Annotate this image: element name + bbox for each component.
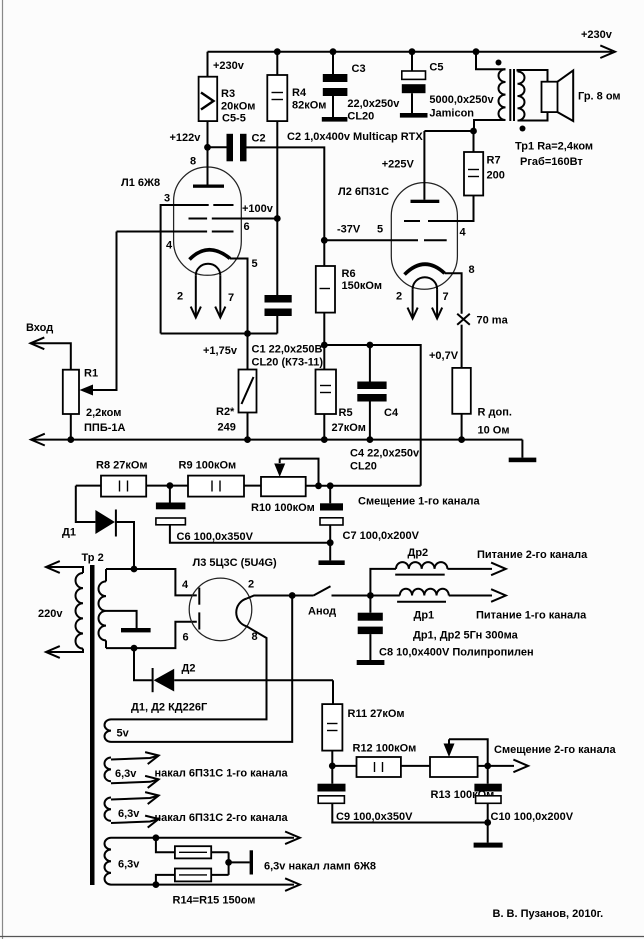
wire L3 pin2 anode out [247,596,292,599]
potentiometer R13 [430,757,478,777]
svg-text:6,3v: 6,3v [115,768,137,780]
diode D1 [76,486,96,522]
svg-text:R7: R7 [487,155,501,167]
svg-text:+230v: +230v [213,60,245,72]
svg-text:C10 100,0x200V: C10 100,0x200V [491,811,574,823]
svg-text:Анод: Анод [308,606,336,618]
transformer T2 core [90,565,95,885]
speaker Gr 8 ohm [542,82,558,112]
node junction C4 top [367,342,374,349]
node junction Dr2/C8 [367,592,374,599]
svg-text:В. В. Пузанов, 2010г.: В. В. Пузанов, 2010г. [493,908,604,920]
svg-text:Л3 5Ц3С (5U4G): Л3 5Ц3С (5U4G) [193,557,278,569]
transformer T2 6,3v winding 2 [104,798,111,821]
tube L2 cathode [405,264,445,274]
svg-text:20кОм: 20кОм [221,101,255,113]
wire R13 wiper [449,739,488,766]
svg-text:R11 27кОм: R11 27кОм [348,708,405,720]
svg-text:200: 200 [487,170,505,182]
svg-text:6,3v: 6,3v [118,859,140,871]
svg-text:R8 27кОм: R8 27кОм [96,460,148,472]
node junction C5 top [409,48,416,55]
wire bias rail to C4 [324,345,420,486]
svg-text:CL20: CL20 [350,461,377,473]
svg-text:CL20: CL20 [347,111,374,123]
node junction C7 top [327,482,334,489]
tube L2 6P31S envelope [391,183,457,290]
transformer T1 secondary [518,72,525,121]
svg-text:5000,0x250v: 5000,0x250v [429,94,494,106]
node junction R5 bottom [321,436,328,443]
svg-text:C7 100,0x200V: C7 100,0x200V [343,530,420,542]
capacitor C2 [208,146,227,148]
svg-text:Питание 1-го канала: Питание 1-го канала [476,610,587,622]
resistor R4 [276,52,278,75]
resistor R11 [332,680,334,704]
node junction C4 bottom [367,436,374,443]
node junction Rdop bottom [458,436,465,443]
node junction R10 wiper [315,482,322,489]
svg-text:82кОм: 82кОм [292,100,326,112]
resistor R8 [76,485,101,487]
svg-text:С6 100,0x350V: С6 100,0x350V [177,531,254,543]
svg-text:22,0x250v: 22,0x250v [347,98,400,110]
svg-text:Тр1 Ra=2,4ком: Тр1 Ra=2,4ком [515,141,593,153]
svg-text:8: 8 [469,264,475,276]
node top-rail arrow +230v [600,45,615,58]
svg-text:R доп.: R доп. [478,407,512,419]
svg-text:4: 4 [182,579,189,591]
node junction grid L2 / R6 [321,237,328,244]
tube L1 anode pin8 [207,147,209,184]
svg-text:Jamicon: Jamicon [429,108,474,120]
svg-text:R2*: R2* [216,406,235,418]
capacitor C1 [276,219,278,296]
inductor Dr2 [370,569,396,596]
resistor R14 [156,838,175,853]
svg-text:R1: R1 [84,368,98,380]
tube L3 5C3S envelope [189,578,252,641]
svg-text:Смещение 1-го канала: Смещение 1-го канала [358,496,481,508]
capacitor C4 [369,345,371,382]
tube L2 heater [413,277,438,289]
svg-text:накал 6П31С 2-го канала: накал 6П31С 2-го канала [155,812,289,824]
potentiometer R10 [261,477,306,496]
transformer T2 6,3v winding 3 [104,838,111,885]
svg-text:8: 8 [190,156,196,168]
svg-text:Смещение 2-го канала: Смещение 2-го канала [494,744,617,756]
svg-text:Л2 6П31С: Л2 6П31С [338,186,389,198]
node junction C3 top [330,48,337,55]
svg-text:249: 249 [218,422,236,434]
svg-text:6,3v накал ламп 6Ж8: 6,3v накал ламп 6Ж8 [264,861,376,873]
node junction R1 bottom [67,436,74,443]
tube L1 pin6 screen [189,218,208,220]
svg-text:C1 22,0x250В: C1 22,0x250В [252,344,323,356]
resistor Rdop [461,325,463,368]
node junction R14 left [153,834,160,841]
node junction R7 top [470,128,477,135]
wire R14/R15 join to chassis [228,852,230,875]
svg-text:C2: C2 [252,133,266,145]
node junction anode switch [289,592,296,599]
node junction D2/HV bottom [131,645,138,652]
svg-text:R5: R5 [339,407,353,419]
svg-text:накал 6П31С 1-го канала: накал 6П31С 1-го канала [155,768,289,780]
svg-text:R10 100кОм: R10 100кОм [251,502,315,514]
node junction R15 left [153,881,160,888]
node junction +100v [274,215,281,222]
wire 5v bottom to anode switch [111,596,292,742]
svg-text:10 Ом: 10 Ом [478,425,510,437]
svg-text:Л1 6Ж8: Л1 6Ж8 [121,177,160,189]
capacitor C8 [369,596,371,613]
svg-text:R3: R3 [221,88,235,100]
svg-text:70 ma: 70 ma [477,315,509,327]
svg-text:C3: C3 [352,63,366,75]
resistor R5 [323,345,325,370]
svg-text:+225V: +225V [382,159,415,171]
wire HV top lead [106,569,197,595]
svg-text:150кОм: 150кОм [342,280,383,292]
diode D2 [134,648,153,680]
resistor R9 [188,476,244,497]
svg-text:Pгаб=160Вт: Pгаб=160Вт [520,156,583,168]
svg-text:R14=R15 150ом: R14=R15 150ом [173,895,256,907]
tube L1 cathode [190,250,231,260]
svg-text:Д1, Д2 КД226Г: Д1, Д2 КД226Г [131,702,208,714]
node junction C9/C10 bottom [484,819,491,826]
node junction C6 top [167,482,174,489]
transformer T2 primary 220v [46,561,60,573]
potentiometer R1 [63,370,79,414]
svg-text:Д2: Д2 [182,663,196,675]
resistor R7 [473,131,475,152]
tube L3 plate pin6 [198,612,200,629]
node phasing dot primary [496,60,502,66]
node junction Tr1 top [473,48,480,55]
svg-text:7: 7 [228,292,234,304]
svg-text:6: 6 [183,632,189,644]
tube L2 grid1 pin5 [324,239,399,241]
svg-text:C4: C4 [384,407,399,419]
node X 70ma [457,314,470,325]
node junction R4 top [274,48,281,55]
capacitor C9 [331,766,333,784]
wire input [31,337,45,349]
wire R1 wiper [91,232,117,391]
node junction R11/C9 [329,763,336,770]
ground C7 [329,543,331,561]
svg-text:Гр. 8 ом: Гр. 8 ом [578,91,621,103]
transformer T1 primary [476,52,506,70]
svg-text:5v: 5v [117,728,130,740]
node junction R2 bottom [244,436,251,443]
svg-text:27кОм: 27кОм [332,422,366,434]
svg-text:6,3v: 6,3v [118,808,140,820]
svg-text:5: 5 [252,258,258,270]
transformer T2 HV secondary [105,569,107,581]
tube L2 anode [423,131,425,200]
svg-text:C9 100,0x350V: C9 100,0x350V [336,811,413,823]
svg-text:ППБ-1А: ППБ-1А [84,422,125,434]
svg-text:R4: R4 [292,87,307,99]
svg-text:R9 100кОм: R9 100кОм [179,460,237,472]
svg-text:7: 7 [443,291,449,303]
wire anode L2 to R7 [424,130,473,132]
transformer T2 5v winding [105,719,112,742]
svg-text:2: 2 [396,291,402,303]
capacitor C5 [411,52,413,71]
svg-text:2,2ком: 2,2ком [86,407,121,419]
svg-text:CL20 (К73-11): CL20 (К73-11) [252,357,324,369]
border bottom [0,936,644,938]
svg-text:4: 4 [460,227,467,239]
svg-text:C5: C5 [429,62,443,74]
inductor Dr1 [370,595,399,597]
tube L1 heater [196,264,221,276]
wire L3 pin8 [111,626,267,719]
node junction C7 bottom [327,539,334,546]
svg-text:С5-5: С5-5 [222,113,246,125]
border left [2,0,4,939]
svg-text:R12 100кОм: R12 100кОм [353,743,417,755]
ground [521,440,523,458]
svg-text:+100v: +100v [242,203,274,215]
svg-text:Др2: Др2 [408,547,429,559]
wire HV center tap ground [106,611,137,628]
svg-text:С8 10,0x400V Полипропилен: С8 10,0x400V Полипропилен [379,647,534,659]
svg-text:6: 6 [244,221,250,233]
tube L1 grid pin3 [189,204,209,206]
tube L3 plate pin4 [198,588,200,605]
wire bias2 arrow [488,765,514,767]
svg-text:R6: R6 [342,268,356,280]
wire bias1 to channel [330,485,421,487]
tube L2 grid2 pin4 dashes [404,220,420,222]
svg-text:C4 22,0x250v: C4 22,0x250v [350,448,420,460]
node junction C10 top [484,763,491,770]
resistor R15 [156,875,175,885]
ground C8 [357,660,385,665]
svg-text:Вход: Вход [26,322,53,334]
svg-text:2: 2 [177,291,183,303]
node phasing dot secondary [520,126,526,132]
node junction R6/R5/C4 rail [321,342,328,349]
svg-text:C2 1,0x400v Multicap RTX: C2 1,0x400v Multicap RTX [287,131,423,143]
svg-text:Питание 2-го канала: Питание 2-го канала [477,549,588,561]
ground C10 [487,823,489,843]
svg-text:Др1: Др1 [414,610,435,622]
tube L3 filament [236,599,247,627]
capacitor C3 [332,52,334,74]
capacitor C10 [487,766,489,784]
svg-text:Д1: Д1 [62,527,76,539]
resistor R2 variable [247,334,249,370]
svg-text:3: 3 [164,193,170,205]
svg-text:+122v: +122v [170,132,202,144]
resistor R3 [207,52,209,77]
svg-text:-37V: -37V [337,224,361,236]
node junction cathode rail [244,330,251,337]
transformer T2 6,3v winding 1 [104,758,111,782]
wire HV bottom lead [106,622,197,648]
transformer T1 core [509,69,511,121]
wire L1 cathode rail +1,75v [161,333,278,335]
svg-text:5: 5 [377,224,383,236]
switch Anod [292,595,313,597]
tube L1 grid pin4 [189,231,208,233]
wire R10 wiper [280,459,319,486]
capacitor C6 [169,486,171,503]
svg-text:+230v: +230v [581,29,613,41]
wire ground rail [31,434,45,446]
svg-text:Тр 2: Тр 2 [82,552,104,564]
node junction D1/HV top [131,566,138,573]
resistor R6 [323,240,325,266]
capacitor C7 [329,486,331,504]
tube L1 6ZH8 envelope [174,167,242,275]
resistor R12 [332,765,356,767]
svg-text:4: 4 [166,240,173,252]
svg-text:8: 8 [252,631,258,643]
svg-text:Др1, Др2 5Гн 300ма: Др1, Др2 5Гн 300ма [413,630,519,642]
svg-text:+0,7V: +0,7V [429,350,459,362]
node +122v [204,144,211,151]
svg-text:2: 2 [248,579,254,591]
svg-text:+1,75v: +1,75v [203,345,238,357]
svg-text:220v: 220v [38,608,63,620]
wire +230v top rail [208,51,613,53]
